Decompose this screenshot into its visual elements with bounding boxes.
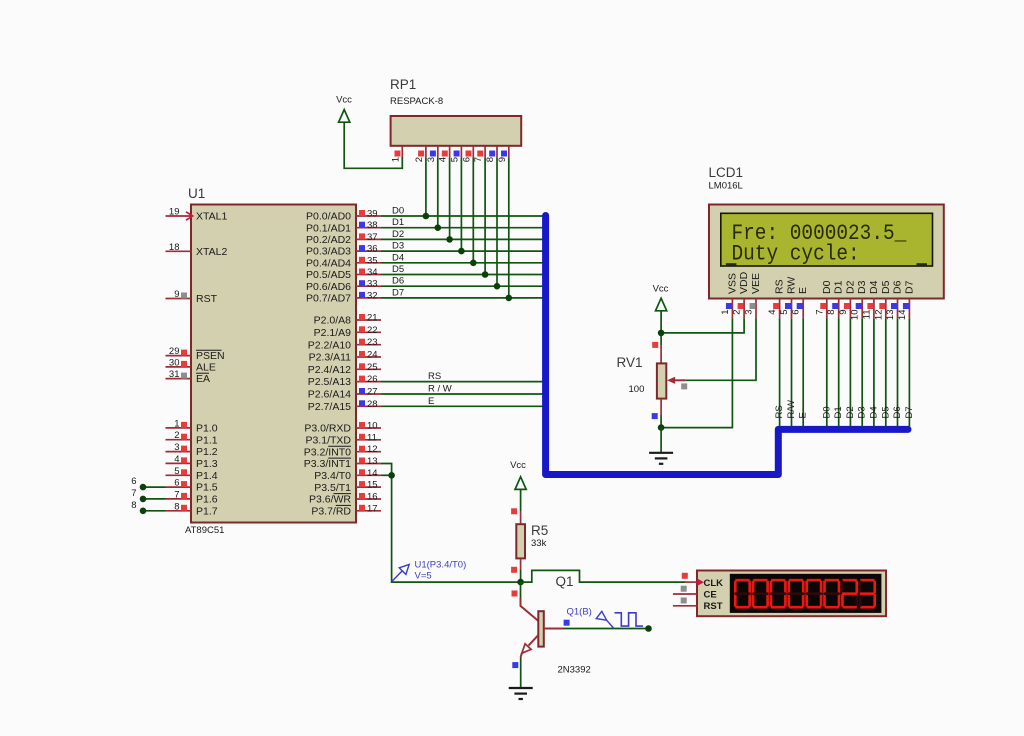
pin 17 P3.7/RD stub: [356, 510, 381, 512]
R5 bottom lead: [520, 558, 522, 570]
svg-text:7: 7: [473, 157, 484, 162]
pin 4 P1.3 stub: [166, 462, 192, 464]
pin 28 P2.7/A15 stub: [356, 405, 381, 407]
svg-text:P0.6/AD6: P0.6/AD6: [306, 281, 351, 293]
svg-text:D2: D2: [845, 406, 856, 418]
wire D1 net: [381, 227, 544, 229]
svg-text:RST: RST: [196, 293, 218, 305]
svg-text:P3.0/RXD: P3.0/RXD: [304, 423, 351, 435]
svg-text:21: 21: [367, 313, 378, 324]
svg-text:D1: D1: [392, 217, 404, 228]
wire D3 net: [381, 250, 544, 252]
svg-text:RW: RW: [786, 277, 798, 294]
svg-text:D2: D2: [844, 280, 856, 294]
svg-text:U1(P3.4/T0): U1(P3.4/T0): [415, 560, 467, 571]
svg-text:9: 9: [838, 310, 849, 315]
svg-text:LM016L: LM016L: [709, 181, 743, 192]
svg-text:XTAL1: XTAL1: [196, 211, 227, 223]
svg-text:P0.0/AD0: P0.0/AD0: [306, 211, 351, 223]
svg-text:P0.5/AD5: P0.5/AD5: [306, 269, 351, 281]
pin 32 P0.7/AD7 stub: [356, 297, 381, 299]
svg-text:RS: RS: [774, 405, 785, 418]
svg-text:11: 11: [367, 432, 377, 443]
svg-text:D2: D2: [392, 229, 404, 240]
pin 21 P2.0/A8 stub: [356, 319, 381, 321]
svg-text:25: 25: [367, 362, 378, 373]
wire LCD D5 to bus: [885, 318, 887, 426]
svg-text:R5: R5: [531, 523, 548, 538]
junction P3.4: [388, 472, 395, 479]
RP1 pin 9 lead/wire to D7: [508, 146, 510, 158]
svg-text:8: 8: [174, 501, 179, 512]
junction D3/RP1: [458, 248, 465, 255]
wire RS net: [381, 381, 544, 383]
svg-text:3: 3: [426, 157, 437, 162]
svg-text:4: 4: [174, 454, 179, 465]
svg-text:RESPACK-8: RESPACK-8: [390, 96, 443, 107]
resistor R5 body: [520, 511, 522, 524]
svg-text:Q1: Q1: [556, 574, 574, 589]
pin 13 P3.3/INT1 stub: [356, 463, 381, 465]
svg-text:D7: D7: [904, 406, 915, 418]
svg-text:D6: D6: [392, 276, 404, 287]
svg-text:34: 34: [367, 267, 378, 278]
wire P3.4/T0 tee: [381, 474, 392, 476]
svg-text:11: 11: [861, 310, 872, 320]
svg-text:EA: EA: [196, 373, 210, 385]
svg-text:P0.4/AD4: P0.4/AD4: [306, 257, 351, 269]
counter pin RST: [673, 605, 697, 607]
svg-text:D5: D5: [880, 280, 892, 294]
wire D7 net: [381, 297, 544, 299]
svg-text:8: 8: [131, 500, 136, 511]
svg-text:12: 12: [873, 310, 884, 321]
svg-text:9: 9: [174, 289, 179, 300]
svg-text:2: 2: [174, 430, 179, 441]
pin 27 P2.6/A14 stub: [356, 393, 381, 395]
wire VEE to pot wiper: [685, 318, 756, 380]
svg-text:P2.2/A10: P2.2/A10: [308, 339, 351, 351]
svg-text:CLK: CLK: [704, 578, 724, 589]
transistor Q1 emitter lead with arrow: [529, 635, 539, 646]
svg-text:D4: D4: [392, 252, 404, 263]
pin 1 P1.0 stub: [166, 427, 192, 429]
resistor pack RP1 RESPACK-8 body: [391, 116, 522, 146]
svg-text:P1.1: P1.1: [196, 434, 218, 446]
pin 2 P1.1 stub: [166, 439, 192, 441]
wire to counter CLK: [521, 570, 685, 582]
pin 6 P1.5 stub: [166, 486, 192, 488]
svg-text:14: 14: [897, 310, 908, 321]
svg-text:7: 7: [131, 488, 136, 499]
junction D2/RP1: [446, 236, 453, 243]
svg-text:P2.6/A14: P2.6/A14: [308, 389, 351, 401]
wire D6 net: [381, 285, 544, 287]
svg-text:P2.0/A8: P2.0/A8: [314, 315, 352, 327]
svg-text:4: 4: [767, 310, 778, 315]
pin 24 P2.3/A11 stub: [356, 356, 381, 358]
svg-text:37: 37: [367, 232, 378, 243]
junction R5/T0/Q1: [517, 579, 524, 586]
svg-text:RV1: RV1: [617, 355, 643, 370]
svg-text:D6: D6: [892, 280, 904, 294]
pin 23 P2.2/A10 stub: [356, 344, 381, 346]
pin 8 P1.7 stub: [166, 510, 192, 512]
svg-text:16: 16: [367, 492, 378, 503]
svg-text:29: 29: [169, 346, 180, 357]
pin 33 P0.6/AD6 stub: [356, 285, 381, 287]
svg-text:E: E: [428, 396, 434, 407]
wire Vcc to RV1: [660, 311, 662, 345]
svg-text:LCD1: LCD1: [709, 165, 744, 180]
svg-text:D4: D4: [868, 406, 879, 418]
svg-text:P2.4/A12: P2.4/A12: [308, 364, 351, 376]
pin 5 P1.4 stub: [166, 474, 192, 476]
svg-text:23: 23: [367, 337, 378, 348]
junction D7/RP1: [506, 295, 513, 302]
svg-text:32: 32: [367, 290, 378, 301]
wire LCD RW to bus: [791, 318, 793, 426]
svg-text:PSEN: PSEN: [196, 350, 225, 362]
pin 15 P3.5/T1 stub: [356, 486, 381, 488]
wire D2 net: [381, 238, 544, 240]
svg-text:P0.1/AD1: P0.1/AD1: [306, 222, 351, 234]
svg-text:4: 4: [438, 157, 449, 162]
svg-text:XTAL2: XTAL2: [196, 246, 227, 258]
svg-text:5: 5: [449, 157, 460, 162]
pin 19 XTAL1 stub: [166, 215, 192, 217]
RP1 pin 5 lead/wire to D3: [460, 146, 462, 158]
pin 38 P0.1/AD1 stub: [356, 227, 381, 229]
pin 29 PSEN stub: [166, 355, 192, 357]
counter digits 00000023: [735, 579, 749, 582]
svg-text:P1.3: P1.3: [196, 458, 218, 470]
svg-text:5: 5: [779, 310, 790, 315]
svg-text:27: 27: [367, 387, 378, 398]
svg-text:10: 10: [850, 310, 861, 321]
LCD cursor marks: [726, 263, 737, 265]
svg-text:1: 1: [174, 418, 179, 429]
ground (RV1): [649, 453, 673, 464]
pin 14 P3.4/T0 stub: [356, 474, 381, 476]
svg-text:E: E: [797, 287, 809, 294]
junction base wire end: [645, 625, 652, 632]
svg-text:24: 24: [367, 350, 378, 361]
pin 34 P0.5/AD5 stub: [356, 274, 381, 276]
wire LCD D6 to bus: [897, 318, 899, 426]
RP1 pin 3 lead/wire to D1: [437, 146, 439, 158]
junction D4/RP1: [470, 260, 477, 267]
pin 7 P1.6 stub: [166, 498, 192, 500]
wire Q1 base net: [563, 628, 649, 630]
svg-text:P1.4: P1.4: [196, 470, 218, 482]
svg-text:D7: D7: [392, 287, 404, 298]
svg-text:D5: D5: [880, 406, 891, 418]
svg-text:D0: D0: [821, 406, 832, 418]
svg-text:P3.5/T1: P3.5/T1: [314, 482, 351, 494]
RP1 pin 6 lead/wire to D4: [472, 146, 474, 158]
svg-text:7: 7: [814, 310, 825, 315]
pin 18 XTAL2 stub: [166, 250, 192, 252]
svg-text:18: 18: [169, 242, 180, 253]
svg-text:D3: D3: [857, 406, 868, 418]
wire emitter to ground: [520, 657, 522, 688]
wire LCD D3 to bus: [861, 318, 863, 426]
svg-text:P1.0: P1.0: [196, 423, 218, 435]
wire LCD RS to bus: [779, 318, 781, 426]
pin 31 EA stub: [166, 378, 192, 380]
wire LCD D4 to bus: [873, 318, 875, 426]
XTAL1 input arrow: [186, 212, 193, 220]
ground (Q1 emitter): [509, 688, 533, 699]
svg-text:P1.6: P1.6: [196, 494, 218, 506]
svg-text:2N3392: 2N3392: [558, 665, 591, 676]
RV1 bottom lead: [660, 399, 662, 416]
svg-text:1: 1: [720, 310, 731, 315]
svg-text:1: 1: [390, 157, 401, 162]
pin 12 P3.2/INT0 stub: [356, 451, 381, 453]
junction VSS/RV1 bottom: [658, 424, 665, 431]
svg-text:8: 8: [826, 310, 837, 315]
svg-text:2: 2: [414, 157, 425, 162]
svg-text:22: 22: [367, 325, 378, 336]
svg-text:9: 9: [497, 157, 508, 162]
junction VDD/RV1 top: [658, 330, 665, 337]
svg-text:2: 2: [732, 310, 743, 315]
svg-text:D3: D3: [392, 241, 404, 252]
pin 3 P1.2 stub: [166, 451, 192, 453]
svg-text:6: 6: [174, 478, 179, 489]
wire R / W net: [381, 393, 544, 395]
svg-text:36: 36: [367, 244, 378, 255]
svg-text:P0.2/AD2: P0.2/AD2: [306, 234, 351, 246]
svg-text:R / W: R / W: [428, 384, 452, 395]
junction D1/RP1: [435, 224, 442, 231]
svg-text:Vcc: Vcc: [336, 95, 352, 106]
wire LCD D0 to bus: [826, 318, 828, 426]
svg-text:RS: RS: [774, 279, 786, 294]
RP1 pin 8 lead/wire to D6: [496, 146, 498, 158]
LCD screen: [721, 213, 933, 266]
wire D4 net: [381, 262, 544, 264]
wire P1.7 dangling net 8: [143, 510, 166, 512]
svg-text:39: 39: [367, 209, 378, 220]
svg-text:ALE: ALE: [196, 362, 216, 374]
svg-text:14: 14: [367, 468, 378, 479]
RP1 pin 1 lead: [401, 146, 403, 158]
pin 22 P2.1/A9 stub: [356, 331, 381, 333]
svg-text:28: 28: [367, 399, 378, 410]
wire E net: [381, 405, 544, 407]
pin 10 P3.0/RXD stub: [356, 427, 381, 429]
counter pin CLK: [685, 581, 697, 583]
wire P1.6 dangling net 7: [143, 498, 166, 500]
RV1 wiper arrow: [674, 379, 685, 381]
svg-text:7: 7: [174, 489, 179, 500]
svg-text:Q1(B): Q1(B): [567, 607, 592, 618]
wire P3.3/INT1 to T0 node: [381, 464, 521, 583]
pin 26 P2.5/A13 stub: [356, 381, 381, 383]
svg-text:26: 26: [367, 374, 378, 385]
bus wire (blue): [546, 216, 908, 475]
potentiometer RV1 body: [660, 345, 662, 363]
pin 35 P0.4/AD4 stub: [356, 262, 381, 264]
svg-text:VSS: VSS: [726, 273, 738, 294]
transistor Q1 body bar: [538, 611, 544, 646]
counter display body: [697, 571, 886, 617]
wire LCD D1 to bus: [838, 318, 840, 426]
pin 37 P0.2/AD2 stub: [356, 238, 381, 240]
svg-text:RS: RS: [428, 371, 441, 382]
svg-text:P0.3/AD3: P0.3/AD3: [306, 246, 351, 258]
svg-text:R/W: R/W: [786, 400, 797, 419]
svg-text:13: 13: [885, 310, 896, 321]
svg-text:RP1: RP1: [390, 77, 416, 92]
RP1 pin 2 lead/wire to D0: [425, 146, 427, 158]
svg-text:8: 8: [485, 157, 496, 162]
svg-text:3: 3: [174, 442, 179, 453]
wire LCD D2 to bus: [849, 318, 851, 426]
svg-text:12: 12: [367, 444, 378, 455]
IC U1 AT89C51 microcontroller body: [191, 205, 356, 523]
svg-text:P3.3/INT1: P3.3/INT1: [304, 458, 351, 470]
pin 11 P3.1/TXD stub: [356, 439, 381, 441]
svg-text:P3.7/RD: P3.7/RD: [311, 505, 351, 517]
svg-text:35: 35: [367, 255, 378, 266]
svg-text:6: 6: [461, 157, 472, 162]
svg-text:31: 31: [169, 369, 180, 380]
wire LCD E to bus: [802, 318, 804, 426]
junction D6/RP1: [494, 283, 501, 290]
transistor Q1 base lead: [544, 628, 563, 630]
svg-text:P3.2/INT0: P3.2/INT0: [304, 446, 351, 458]
wire D5 net: [381, 274, 544, 276]
svg-text:P2.3/A11: P2.3/A11: [309, 352, 352, 364]
wire VDD to pot top: [661, 318, 744, 333]
svg-text:P2.5/A13: P2.5/A13: [308, 376, 351, 388]
svg-text:17: 17: [367, 503, 378, 514]
svg-text:6: 6: [131, 476, 136, 487]
svg-text:E: E: [798, 412, 809, 418]
pin 25 P2.4/A12 stub: [356, 368, 381, 370]
svg-text:V=5: V=5: [415, 571, 432, 582]
svg-text:D3: D3: [856, 280, 868, 294]
counter pin CE: [673, 593, 697, 595]
pin 9 RST stub: [166, 298, 192, 300]
svg-text:CE: CE: [704, 590, 717, 601]
waveform glyph: [615, 613, 644, 626]
wire VSS to pot bottom: [661, 318, 732, 427]
pin 39 P0.0/AD0 stub: [356, 215, 381, 217]
svg-text:P2.7/A15: P2.7/A15: [308, 401, 351, 413]
svg-text:100: 100: [629, 384, 645, 395]
pin 36 P0.3/AD3 stub: [356, 250, 381, 252]
svg-text:VDD: VDD: [738, 271, 750, 294]
svg-text:D4: D4: [868, 280, 880, 294]
svg-text:D1: D1: [833, 280, 845, 294]
svg-text:D6: D6: [892, 406, 903, 418]
svg-text:15: 15: [367, 480, 378, 491]
svg-text:P1.7: P1.7: [196, 505, 218, 517]
svg-text:RST: RST: [704, 601, 723, 612]
svg-text:19: 19: [169, 207, 180, 218]
svg-text:D0: D0: [392, 206, 404, 217]
svg-text:D5: D5: [392, 264, 404, 275]
svg-text:33k: 33k: [531, 538, 547, 549]
wire Vcc to RP1 pin1: [344, 122, 402, 168]
wire Vcc to R5: [520, 489, 522, 511]
svg-text:Vcc: Vcc: [653, 284, 669, 295]
svg-text:U1: U1: [188, 186, 205, 201]
svg-text:Vcc: Vcc: [510, 460, 526, 471]
wire RV1 to ground: [660, 428, 662, 453]
svg-text:10: 10: [367, 421, 378, 432]
svg-text:P3.6/WR: P3.6/WR: [309, 494, 351, 506]
svg-text:13: 13: [367, 456, 378, 467]
wire D0 net: [381, 215, 544, 217]
svg-text:D0: D0: [821, 280, 833, 294]
svg-text:5: 5: [174, 466, 179, 477]
svg-text:AT89C51: AT89C51: [185, 525, 224, 536]
svg-text:P3.4/T0: P3.4/T0: [314, 470, 351, 482]
junction D0/RP1: [423, 213, 430, 220]
wire LCD D7 to bus: [908, 318, 910, 426]
svg-text:P1.2: P1.2: [196, 446, 218, 458]
svg-text:30: 30: [169, 357, 180, 368]
svg-text:P2.1/A9: P2.1/A9: [314, 327, 352, 339]
wire P1.5 dangling net 6: [143, 486, 166, 488]
pin 30 ALE stub: [166, 366, 192, 368]
svg-text:P0.7/AD7: P0.7/AD7: [306, 293, 351, 305]
svg-text:D7: D7: [903, 280, 915, 294]
RP1 pin 4 lead/wire to D2: [449, 146, 451, 158]
junction D5/RP1: [482, 271, 489, 278]
svg-text:P3.1/TXD: P3.1/TXD: [305, 434, 351, 446]
RP1 pin 7 lead/wire to D5: [484, 146, 486, 158]
svg-text:D1: D1: [833, 406, 844, 418]
svg-text:VEE: VEE: [750, 273, 762, 294]
svg-text:P1.5: P1.5: [196, 482, 218, 494]
pin 16 P3.6/WR stub: [356, 498, 381, 500]
svg-text:33: 33: [367, 279, 378, 290]
svg-text:38: 38: [367, 220, 378, 231]
svg-text:6: 6: [791, 310, 802, 315]
svg-text:3: 3: [744, 310, 755, 315]
transistor Q1 collector lead: [520, 582, 522, 598]
voltage probe U1(P3.4/T0): [392, 571, 403, 582]
svg-text:Duty cycle:: Duty cycle:: [732, 241, 860, 267]
